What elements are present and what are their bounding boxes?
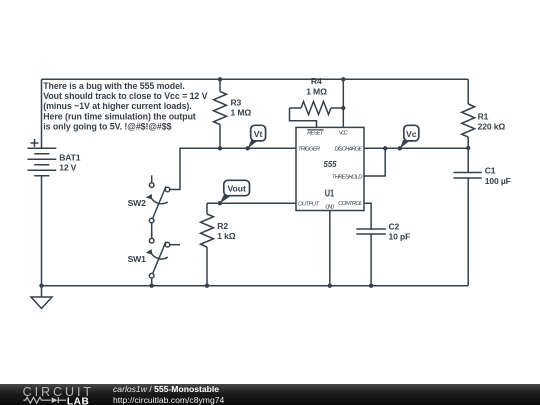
svg-text:OUTPUT: OUTPUT (298, 201, 319, 207)
svg-text:1 MΩ: 1 MΩ (231, 108, 252, 118)
svg-text:is only going to 5V. !@#$!@#$$: is only going to 5V. !@#$!@#$$ (43, 121, 171, 131)
node: GND pin to bottom rail (328, 284, 332, 288)
svg-text:R3: R3 (231, 97, 242, 107)
node: battery/ground junction (39, 284, 43, 288)
node: R3 to trigger line (218, 146, 222, 150)
node: R3 to top rail (218, 77, 222, 81)
svg-text:TRIGGER: TRIGGER (298, 147, 321, 153)
capacitor C2 (356, 221, 410, 241)
CircuitLab logo (0, 384, 110, 405)
wire: right rail top segment to R1 (467, 79, 469, 104)
wire: battery minus down to ground node (41, 176, 43, 286)
footer bar (0, 384, 540, 405)
node: VCC wire to top rail (341, 77, 345, 81)
svg-text:100 µF: 100 µF (485, 176, 511, 186)
svg-text:GND: GND (325, 204, 334, 210)
probe Vc (400, 125, 419, 148)
annotation note text (43, 81, 207, 131)
wire: GND pin to bottom rail (329, 211, 331, 286)
svg-text:CONTROL: CONTROL (338, 201, 362, 207)
probe Vout (220, 180, 250, 203)
wire: bottom rail (42, 285, 469, 287)
footer title text (113, 384, 224, 405)
svg-text:1 MΩ: 1 MΩ (306, 87, 327, 97)
node: R4 to VCC wire (341, 106, 345, 110)
svg-text:Vt: Vt (254, 129, 263, 139)
svg-text:BAT1: BAT1 (59, 153, 81, 163)
resistor R4 (290, 76, 344, 127)
svg-text:U1: U1 (325, 188, 335, 199)
svg-text:Vout: Vout (227, 184, 246, 194)
svg-text:12 V: 12 V (59, 163, 76, 173)
svg-text:10 pF: 10 pF (389, 232, 411, 242)
svg-text:Here (run time simulation) the: Here (run time simulation) the output (43, 111, 196, 121)
node: SW1 to bottom rail (150, 284, 154, 288)
ground (31, 286, 52, 309)
node: Vt probe tip (246, 146, 250, 150)
node: R1/C1 junction (466, 146, 470, 150)
wire: C2 bottom plate to bottom rail (370, 234, 372, 286)
battery BAT1 (28, 139, 81, 176)
probe Vt (248, 125, 266, 148)
svg-text:SW2: SW2 (128, 198, 147, 208)
wire: left rail (battery + to top rail) (41, 79, 43, 148)
svg-text:220 kΩ: 220 kΩ (478, 122, 506, 132)
svg-text:1 kΩ: 1 kΩ (217, 231, 235, 241)
node: threshold/discharge junction (383, 146, 387, 150)
switch SW1 (128, 231, 180, 286)
node: R2 to bottom rail (205, 284, 209, 288)
svg-text:THRESHOLD: THRESHOLD (332, 174, 363, 180)
svg-text:There is a bug with the 555 mo: There is a bug with the 555 model. (43, 81, 185, 91)
svg-text:R1: R1 (478, 111, 489, 121)
svg-text:RESET: RESET (307, 131, 324, 137)
wire: C1 bottom plate to bottom rail (467, 178, 469, 286)
wire: output line from R2 to OUTPUT pin (207, 202, 296, 204)
switch SW2 (128, 175, 170, 223)
svg-text:VCC: VCC (339, 131, 349, 137)
resistor R1 (462, 104, 506, 137)
node: C2 to bottom rail (369, 284, 373, 288)
wire: VCC pin to top rail (342, 79, 344, 127)
svg-text:DISCHARGE: DISCHARGE (335, 147, 363, 153)
svg-text:R2: R2 (217, 221, 228, 231)
wire: threshold line up to discharge line (364, 148, 385, 176)
resistor R2 (201, 203, 236, 286)
svg-text:C1: C1 (485, 166, 496, 176)
wire: top rail (42, 78, 469, 80)
wire: R1 bottom to C1 top plate (467, 137, 469, 173)
svg-text:555: 555 (324, 159, 337, 169)
svg-text:SW1: SW1 (128, 254, 147, 264)
svg-text:LAB: LAB (67, 396, 90, 405)
wire: SW2 throw up to trigger line and to TRIGGER pin (170, 148, 296, 189)
wire: SW2 common to SW1 top throw (151, 223, 153, 239)
svg-text:(minus ~1V at higher current l: (minus ~1V at higher current loads). (43, 101, 192, 111)
resistor R3 (214, 79, 252, 148)
capacitor C1 (454, 166, 511, 186)
wire: discharge line from DISCHARGE pin to right rail (364, 147, 468, 149)
node: Vc probe tip (398, 146, 402, 150)
svg-text:R4: R4 (311, 76, 322, 86)
node: Vout probe tip (218, 201, 222, 205)
IC U1 (555 timer) (296, 127, 364, 210)
svg-text:Vc: Vc (406, 129, 417, 139)
svg-text:Vout should track to close to: Vout should track to close to Vcc = 12 V (43, 91, 207, 101)
wire: CONTROL pin to C2 top plate (364, 203, 371, 229)
svg-text:C2: C2 (389, 221, 400, 231)
